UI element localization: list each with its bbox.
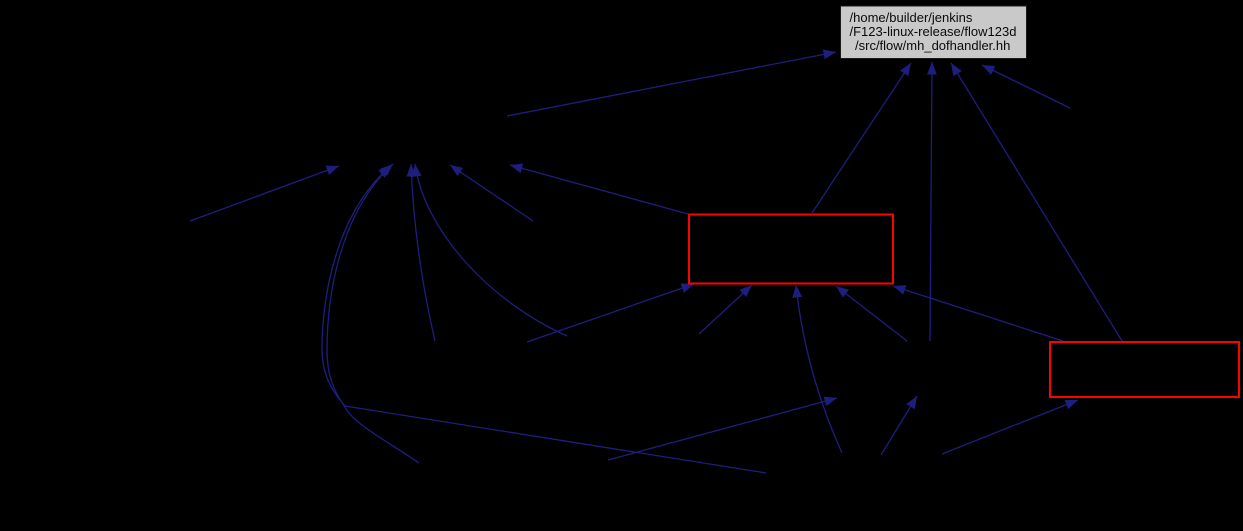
wire D2 to R1 [699, 285, 752, 334]
node G /src/flow/mh_dofhandler.hh [841, 6, 1027, 59]
wire A to G [507, 52, 836, 116]
wire E1 to A [327, 164, 419, 463]
wire R1 to G [812, 63, 911, 213]
wire R2 to G [951, 63, 1122, 341]
wire BN1 to R1 [796, 285, 842, 453]
wire TR to G [982, 65, 1070, 108]
wire D1 to A [411, 164, 435, 341]
wire B to A [190, 166, 339, 221]
wire BN1 to R2 [942, 400, 1078, 454]
svg-text:/F123-linux-release/flow123d: /F123-linux-release/flow123d [850, 24, 1017, 39]
wire F to R1 [836, 286, 907, 341]
node R1 (red box) [689, 215, 893, 284]
wire C to A [450, 165, 533, 221]
wire BN2 to F [608, 398, 837, 460]
wire F to G [930, 62, 932, 341]
node R2 (red box) [1050, 342, 1239, 397]
wire D2 to A [415, 164, 567, 336]
wire D1 to R1 [527, 284, 694, 342]
svg-text:/src/flow/mh_dofhandler.hh: /src/flow/mh_dofhandler.hh [855, 38, 1010, 53]
wire R1 to A [510, 165, 688, 214]
wire E2 to A [322, 166, 766, 473]
wire R2 to R1 [893, 286, 1063, 341]
svg-text:/home/builder/jenkins: /home/builder/jenkins [850, 10, 973, 25]
wire BN1 to F [881, 396, 917, 455]
